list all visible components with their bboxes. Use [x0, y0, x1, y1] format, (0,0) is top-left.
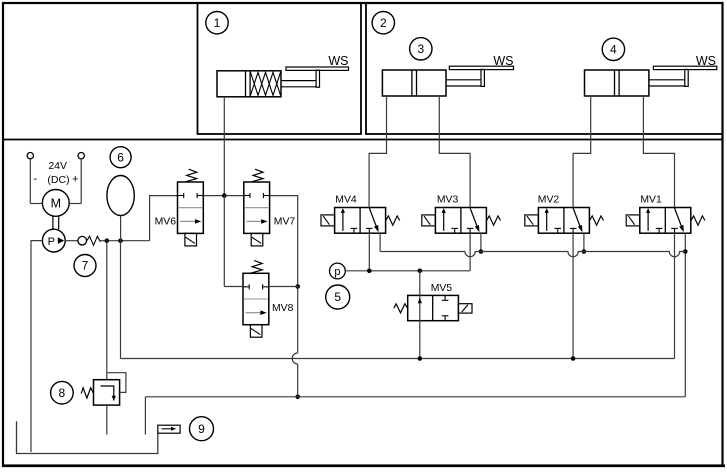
- svg-text:3: 3: [417, 42, 424, 56]
- svg-text:p: p: [334, 266, 340, 278]
- svg-text:(DC): (DC): [47, 174, 69, 186]
- svg-text:MV7: MV7: [274, 217, 296, 228]
- svg-text:WS: WS: [493, 54, 513, 68]
- svg-text:MV5: MV5: [431, 283, 453, 294]
- svg-text:WS: WS: [696, 54, 716, 68]
- svg-text:6: 6: [117, 150, 124, 164]
- svg-text:2: 2: [380, 16, 387, 30]
- svg-text:MV6: MV6: [155, 217, 177, 228]
- svg-text:MV1: MV1: [640, 195, 662, 206]
- svg-text:9: 9: [198, 422, 205, 436]
- svg-text:MV3: MV3: [437, 195, 459, 206]
- svg-text:1: 1: [214, 16, 221, 30]
- svg-text:WS: WS: [328, 54, 348, 68]
- svg-text:MV4: MV4: [335, 195, 357, 206]
- svg-text:4: 4: [610, 43, 617, 57]
- svg-text:5: 5: [334, 290, 341, 304]
- svg-text:24V: 24V: [48, 160, 67, 172]
- svg-text:P: P: [48, 236, 55, 248]
- svg-text:-: -: [33, 173, 37, 185]
- svg-text:7: 7: [82, 259, 89, 273]
- svg-text:MV2: MV2: [538, 195, 560, 206]
- svg-text:+: +: [72, 174, 78, 186]
- svg-text:8: 8: [59, 386, 66, 400]
- svg-text:M: M: [51, 197, 61, 211]
- svg-text:MV8: MV8: [272, 303, 294, 314]
